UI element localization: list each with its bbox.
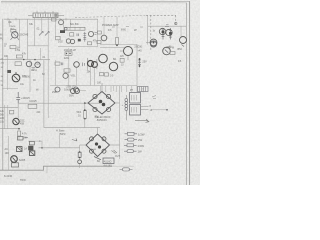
resistor R20 vertical (18, 131, 21, 136)
C2 C3 dark blobs (162, 31, 173, 35)
transistor Q13 dark (88, 61, 94, 67)
blob row marks (140, 87, 146, 92)
svg-text:POWER AMP: POWER AMP (102, 23, 119, 27)
wire step at cap (17, 103, 19, 107)
wire rail y85.5 (50, 85, 137, 87)
wire vertical drop x63 (63, 19, 65, 27)
transistor Q2 (59, 20, 64, 25)
resistor R12 (64, 69, 70, 72)
wire vertical x40.5 (40, 48, 42, 60)
transformer inner marks (132, 95, 137, 113)
transistor pair Q24 (75, 89, 80, 94)
wire vertical x42 (41, 141, 43, 148)
transistor Q18 big (124, 47, 133, 56)
wire top rail (4, 18, 98, 20)
small marks x77 (77, 34, 79, 37)
R22 dark dots (79, 151, 81, 158)
resistor R6 (87, 42, 91, 45)
wire corner x43.9 (44, 60, 100, 128)
border frame top line outer (1, 0, 190, 2)
svg-text:100: 100 (97, 82, 102, 85)
transistor Q6 dot (153, 42, 155, 44)
wire vertical drop x27 (27, 19, 29, 59)
svg-text:2SC945: 2SC945 (20, 34, 29, 37)
transistor Q7 mark (165, 50, 168, 53)
transistor Q16 (55, 87, 60, 92)
resistor R1 (11, 30, 16, 33)
tiny circle top (175, 22, 177, 24)
resistor R8 (16, 55, 22, 58)
connector J1 top ticks (37, 11, 53, 13)
resistor Rc (97, 41, 101, 44)
svg-text:1/4W: 1/4W (138, 144, 145, 148)
transistor Q5 (70, 39, 74, 43)
pilot lamp circle (78, 160, 82, 164)
capacitor C5 input cap (16, 92, 20, 103)
wire bottom-left stub (2, 88, 18, 90)
svg-text:TRIO: TRIO (20, 179, 26, 182)
dark box with hatch (17, 147, 23, 152)
svg-text:8Ω: 8Ω (97, 161, 100, 163)
upper bridge rectifier diamond (88, 92, 115, 115)
tick on bottom border (46, 166, 48, 173)
svg-text:B52: B52 (178, 48, 183, 51)
end dot (166, 109, 168, 111)
trimmer arrow 1 (39, 32, 43, 36)
wire Q13 down (91, 67, 95, 86)
small box between (120, 58, 124, 62)
resistor R10 (65, 52, 72, 56)
svg-text:4-8-16Ω: 4-8-16Ω (104, 166, 113, 168)
wire top horizontal right block (100, 47, 124, 49)
wire vertical x137 (136, 44, 138, 92)
junction dot y147.8 (41, 147, 43, 149)
svg-text:10u: 10u (20, 83, 25, 86)
svg-text:6AR5: 6AR5 (19, 159, 26, 162)
choke L1 loops (125, 95, 127, 120)
transistor Q25 dark (11, 156, 18, 163)
junction dots rail (23, 59, 36, 61)
svg-text:2SB56: 2SB56 (23, 76, 31, 79)
wire from pair right (80, 90, 87, 92)
resistor R13 (100, 73, 104, 76)
transistor Q10 (35, 62, 40, 67)
top box bottom-left (18, 137, 24, 141)
wire verticals mid block (56, 48, 77, 86)
wire rail main y103.2 (18, 102, 100, 104)
wire vertical x113.8 (113, 86, 115, 91)
transistor Q25 mark (13, 158, 16, 162)
wire vertical drop x70 (70, 19, 72, 27)
svg-text:PU: PU (0, 39, 4, 41)
transistor Q7 (163, 47, 171, 55)
resistor R23 box (11, 163, 18, 167)
right marks small (152, 96, 156, 99)
svg-text:1W: 1W (138, 150, 143, 154)
paper background (0, 0, 200, 185)
wire center horizontal (100, 44, 137, 46)
dark mark x79 (78, 39, 81, 42)
tick at x39.9 (39, 140, 41, 142)
svg-text:2SB 175: 2SB 175 (66, 86, 76, 89)
wire vertical x59.3 (58, 133, 60, 148)
dashed enclosure right edge (175, 15, 177, 26)
junction dot (18, 128, 20, 130)
transistor Q15 (63, 73, 68, 78)
wire vertical drop x9 (8, 19, 10, 27)
wire Q6 left (146, 42, 150, 44)
legend row3 symbol (124, 144, 137, 146)
cap marks (62, 63, 63, 66)
svg-text:470k: 470k (15, 49, 21, 52)
wire dashed rail to right box (75, 15, 146, 17)
resistor R14b (105, 73, 109, 76)
lower bridge corner circles (90, 137, 107, 153)
transformer T1 primary (130, 93, 141, 104)
transistor Q18 leads (120, 51, 128, 60)
wire left vertical x7.5 (7, 55, 9, 90)
transistor pair Q23 (71, 89, 76, 94)
lower bridge left stub (80, 144, 86, 146)
svg-text:4Ω16Ω: 4Ω16Ω (104, 161, 112, 164)
wire y141.1 (28, 140, 42, 142)
tick marks rail (8, 18, 16, 21)
rail ticks x60-70 (60, 18, 66, 20)
upper bridge dark center (99, 100, 106, 107)
upper bridge top stub (101, 83, 103, 92)
svg-text:IN60: IN60 (121, 30, 127, 32)
svg-text:AUX: AUX (10, 27, 15, 30)
resistor R11 (55, 62, 60, 65)
bracket marks (83, 63, 85, 67)
wire vertical drop x19 (18, 19, 20, 48)
vertical bar element (116, 38, 119, 45)
Q8 mark below (182, 45, 185, 47)
capacitor C4 bar with ticks (138, 58, 141, 67)
transistor Q1 (12, 32, 18, 38)
svg-text:458: 458 (20, 123, 25, 126)
junction dot x84.8 (84, 102, 86, 104)
resistor R3 (56, 36, 61, 40)
transformer T1 secondary (130, 105, 141, 116)
svg-text:BAL 50k: BAL 50k (70, 23, 79, 26)
wire mid rail y59.6 (0, 59, 50, 61)
connector J1 pins (36, 14, 56, 17)
border frame right inner (186, 3, 188, 185)
svg-text:+45: +45 (138, 50, 143, 53)
mark right of top box (24, 137, 28, 139)
paper noise (0, 0, 200, 185)
slider ticks (70, 27, 80, 30)
resistor R9 (15, 62, 21, 66)
svg-text:50/6: 50/6 (69, 95, 74, 98)
transistor Q11 mark (14, 72, 18, 80)
lower bridge dark center (95, 142, 101, 148)
resistor R5 (70, 33, 74, 36)
svg-text:1A: 1A (24, 148, 27, 151)
transistor Q12 (74, 62, 80, 68)
dashes above transformer (142, 88, 144, 94)
svg-text:2SD30: 2SD30 (134, 46, 142, 49)
lower bridge right stub (110, 144, 120, 146)
wire vertical x147 (146, 16, 148, 45)
svg-text:8-4136: 8-4136 (4, 174, 13, 178)
transistor Q22 dark (13, 118, 19, 124)
vertical bar x96.5 (96, 59, 98, 69)
arrow to selector (94, 157, 101, 160)
marks right of Q3 (95, 33, 98, 35)
transistor Q21 (151, 41, 157, 47)
border frame bottom stepped (0, 166, 112, 170)
wire rail y128.7 (0, 128, 19, 130)
legend row2 symbol (125, 139, 138, 141)
svg-text:0.02: 0.02 (58, 40, 63, 43)
volume slider bar (64, 27, 85, 30)
svg-text:OUT: OUT (115, 156, 120, 158)
transistor Q11 dark (12, 74, 20, 82)
wire horizontal y26.2 (148, 25, 186, 27)
left margin marks (4, 44, 7, 46)
upper bridge left stub (85, 102, 88, 104)
connector right cell dark (54, 14, 57, 17)
wire right y109.8 (152, 109, 167, 111)
connector J1 side stubs (28, 14, 64, 16)
svg-text:VOL: VOL (71, 75, 77, 78)
svg-text:25V: 25V (143, 61, 148, 64)
resistor R19 (10, 110, 14, 114)
wire pin drop x34 (33, 18, 35, 46)
legend lone symbol (123, 168, 130, 171)
svg-text:10u: 10u (0, 121, 5, 124)
svg-text:PT: PT (130, 89, 134, 92)
stack dark blob 1 (28, 146, 33, 151)
border frame left (2, 19, 4, 170)
transistor Q17 (74, 87, 79, 92)
dark blob left (7, 70, 11, 73)
resistor R22 vertical (78, 152, 81, 157)
svg-text:2P: 2P (134, 30, 137, 32)
bar dot (116, 44, 118, 46)
lower bridge top stub (97, 128, 99, 134)
svg-text:15: 15 (178, 59, 182, 63)
wire vertical x79.6 (79, 145, 81, 168)
wire vertical x19 down (18, 136, 20, 140)
wire rail y147.8 (39, 147, 80, 149)
dark box hatch (17, 147, 22, 152)
ring over C2 (159, 28, 165, 34)
wire vertical x119.6 (119, 86, 121, 159)
svg-text:45RPM: 45RPM (166, 47, 174, 50)
resistor R17 (170, 52, 175, 55)
R10 dots (66, 53, 71, 54)
connector J1 body (33, 13, 58, 18)
slider knob (65, 28, 68, 31)
wire x84.8 to rail (84, 118, 86, 127)
out wire 2 (141, 109, 149, 111)
border frame right outer (189, 1, 191, 185)
wire left verticals lower (5, 105, 8, 129)
R21 end dots (84, 109, 86, 119)
stack box 1 (29, 141, 34, 145)
upper bridge right stub (115, 102, 120, 104)
out wire 1 (141, 105, 149, 107)
wire vertical x181 (180, 26, 182, 36)
legend row1 symbol (125, 133, 138, 135)
lone symbol stubs (120, 168, 133, 170)
svg-text:2SB: 2SB (52, 91, 57, 94)
svg-text:4.7k: 4.7k (22, 133, 27, 136)
wire pin drop x48 (47, 18, 49, 118)
svg-text:100/25: 100/25 (29, 100, 37, 103)
svg-text:AF11: AF11 (31, 69, 37, 72)
hatch marks right of bridge (112, 150, 118, 154)
dashed enclosure left edge (150, 15, 152, 51)
legend row4 symbol (124, 150, 137, 152)
svg-text:AC: AC (5, 148, 9, 151)
wire vertical x18.2 to Q (17, 103, 19, 118)
svg-text:8Ω: 8Ω (113, 58, 116, 61)
wire rail y46.4 (58, 45, 98, 47)
transistor Q3 (88, 31, 93, 36)
vertical bar x87.5 (87, 58, 89, 71)
wire rail left segment y107.3 (0, 106, 18, 108)
upper bridge corner circles (93, 94, 111, 111)
resistor R2 (10, 46, 16, 49)
svg-text:IN: IN (0, 35, 3, 37)
transistor Q4 (66, 39, 70, 43)
ring over C3 (166, 29, 172, 35)
transistor Qc (101, 35, 107, 41)
box right of Q3 (97, 31, 101, 34)
bus ticks (101, 86, 132, 92)
lower bridge rectifier diamond (86, 134, 110, 157)
arrow mark above rail (72, 139, 77, 142)
dashed enclosure top edge (146, 14, 176, 16)
wire x84.8 down (84, 103, 86, 110)
selector box (103, 158, 114, 164)
C4 dots (139, 58, 141, 67)
marks above caps (165, 25, 169, 27)
resistor R18 (28, 104, 37, 108)
border frame top line inner (1, 2, 187, 4)
capacitor C3 bar with ticks (169, 28, 172, 40)
capacitor C2 bar with ticks (162, 28, 165, 40)
trimmer arrow 2 (45, 32, 49, 36)
wire vertical x30 (29, 60, 31, 92)
stack blob 2 hatch (30, 152, 34, 155)
ground symbol under pair (32, 68, 36, 71)
transistor Q6 (150, 39, 157, 46)
wire pin drop x55 (55, 18, 57, 37)
wire vertical drop x97 (97, 19, 99, 46)
wire pin drop x41 (41, 18, 43, 33)
resistor R21 vertical (84, 111, 87, 119)
wire vertical x117 (116, 17, 118, 38)
resistor R4 (52, 18, 57, 21)
connector J1 dividers (38, 13, 53, 18)
diode D1 dark blob (60, 30, 65, 33)
wire vertical x104 (103, 17, 105, 35)
svg-text:2W: 2W (138, 138, 143, 142)
svg-text:50Hz: 50Hz (60, 133, 66, 136)
transistor Q22 mark (15, 120, 18, 124)
border frame bottom faded tail (112, 165, 134, 167)
transistor Q9a (26, 61, 31, 66)
transistor Q1 inner mark (11, 33, 20, 40)
transistor Q14 dark (92, 62, 98, 68)
svg-text:100: 100 (5, 152, 10, 155)
transistor Q8 (180, 37, 187, 44)
capacitor C1 vertical with ticks (83, 32, 86, 42)
svg-text:(PV: (PV (95, 117, 99, 119)
stack dark blob 2 (29, 151, 34, 156)
out arrow lower (135, 119, 149, 122)
dark blob row above transformer (138, 87, 149, 92)
wire y45.8 (28, 45, 48, 47)
transistor Q19 (99, 54, 108, 63)
transistor Q20 (109, 62, 117, 70)
svg-text:1/2W: 1/2W (138, 132, 145, 136)
wire vertical x8.7 (8, 136, 10, 170)
